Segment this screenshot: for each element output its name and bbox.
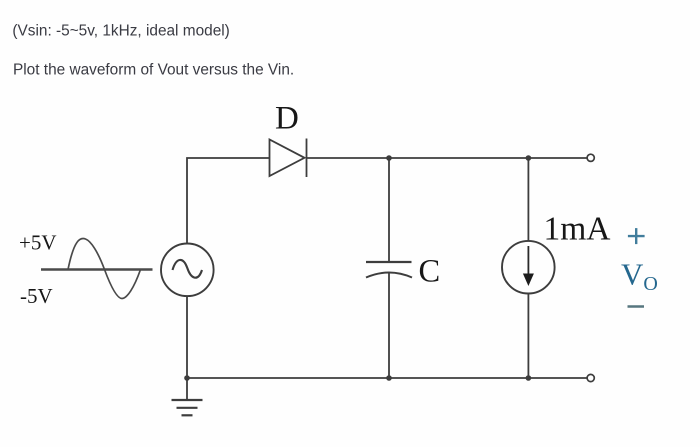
wire: bottom rail xyxy=(187,377,587,379)
sine waveform sketch xyxy=(41,239,153,299)
source VS sine voltage source xyxy=(161,243,214,296)
wire: current source bottom lead xyxy=(527,294,529,378)
svg-text:C: C xyxy=(419,253,441,289)
diode D xyxy=(270,139,307,178)
wire: current source top lead xyxy=(527,158,529,240)
svg-text:Plot the waveform of Vout vers: Plot the waveform of Vout versus the Vin… xyxy=(13,62,294,79)
label − (Vo polarity) xyxy=(628,305,645,308)
capacitor C xyxy=(366,262,412,278)
wire: ground stub xyxy=(186,378,188,400)
wire: top rail right segment (diode cathode to Vo+ terminal) xyxy=(307,157,588,159)
terminal: Vo+ xyxy=(587,154,594,161)
wire: capacitor top lead xyxy=(388,158,390,262)
junction: capacitor top node xyxy=(386,155,392,161)
svg-text:-5V: -5V xyxy=(20,284,53,308)
wire: top rail left segment (source top to diode anode) xyxy=(187,158,270,243)
wire: capacitor bottom lead xyxy=(388,273,390,379)
junction: capacitor bottom node xyxy=(386,375,392,381)
label + (Vo polarity) xyxy=(628,228,645,244)
junction: current source bottom node xyxy=(526,375,532,381)
svg-text:D: D xyxy=(275,101,299,137)
wire: source bottom lead xyxy=(186,297,188,378)
svg-text:+5V: +5V xyxy=(19,231,57,255)
ground xyxy=(172,400,203,415)
current source I1 (1mA) xyxy=(502,241,555,294)
junction: bottom left node xyxy=(184,375,190,381)
terminal: Vo- xyxy=(587,374,594,381)
svg-text:(Vsin: -5~5v, 1kHz, ideal mode: (Vsin: -5~5v, 1kHz, ideal model) xyxy=(12,22,229,39)
junction: current source top node xyxy=(526,155,532,161)
svg-text:1mA: 1mA xyxy=(544,211,611,248)
